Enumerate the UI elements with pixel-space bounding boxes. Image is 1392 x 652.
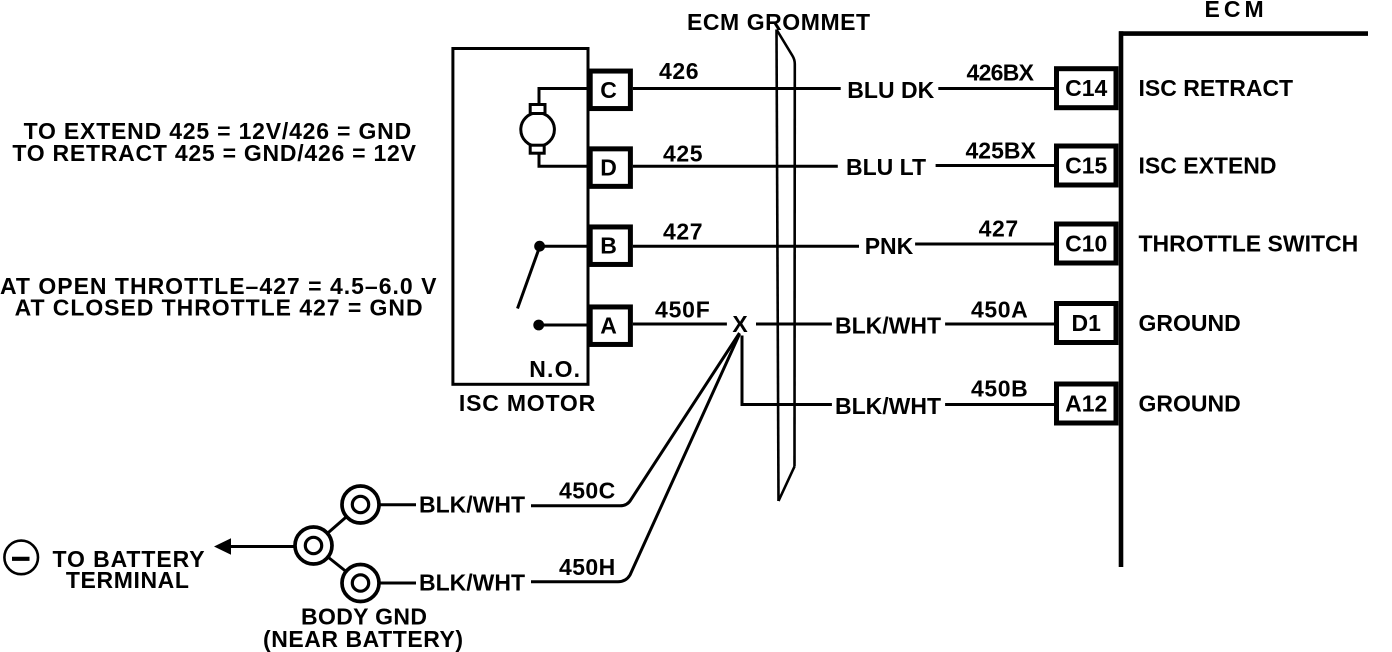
terminal A bbox=[590, 307, 630, 345]
wire top splice to BLK/WHT 450C bbox=[378, 503, 416, 506]
terminal C bbox=[590, 71, 630, 109]
svg-text:BLK/WHT: BLK/WHT bbox=[835, 313, 941, 339]
svg-text:GROUND: GROUND bbox=[1139, 391, 1241, 417]
svg-text:427: 427 bbox=[979, 216, 1019, 242]
body ground splice top bbox=[342, 486, 379, 523]
motor brush bottom bbox=[530, 145, 544, 153]
wire 426 (C to grommet) bbox=[633, 87, 841, 90]
svg-text:PNK: PNK bbox=[865, 233, 914, 259]
svg-text:B: B bbox=[600, 233, 617, 259]
switch contact dot at A bbox=[533, 320, 544, 331]
body ground splice bottom bbox=[342, 565, 379, 602]
ECM top line bbox=[1119, 31, 1368, 36]
svg-text:N.O.: N.O. bbox=[529, 356, 581, 382]
motor M (armature) bbox=[521, 113, 555, 147]
wire motor to terminal D bbox=[539, 154, 588, 167]
svg-text:BLK/WHT: BLK/WHT bbox=[419, 570, 525, 596]
svg-text:C15: C15 bbox=[1065, 153, 1107, 179]
ECM vertical line bbox=[1119, 31, 1124, 567]
svg-text:ISC RETRACT: ISC RETRACT bbox=[1139, 75, 1294, 101]
wire 450A (X to BLK/WHT) bbox=[756, 323, 832, 326]
switch contact dot at B bbox=[534, 241, 545, 252]
wire 425 (D to grommet) bbox=[633, 165, 838, 168]
wire motor to terminal C bbox=[539, 89, 588, 105]
wire 427 (to C10) bbox=[915, 243, 1054, 246]
wire dot to terminal A bbox=[539, 324, 588, 327]
svg-text:C: C bbox=[600, 77, 617, 103]
wire 425BX (to C15) bbox=[936, 164, 1054, 167]
svg-text:BLU LT: BLU LT bbox=[846, 154, 926, 180]
body ground splice middle bbox=[295, 527, 332, 564]
svg-text:X: X bbox=[732, 311, 748, 337]
svg-text:BLU DK: BLU DK bbox=[847, 77, 934, 103]
wire 450A (to D1) bbox=[945, 323, 1054, 326]
svg-text:ISC EXTEND: ISC EXTEND bbox=[1139, 153, 1277, 179]
terminal D bbox=[590, 149, 630, 187]
svg-text:C14: C14 bbox=[1065, 75, 1107, 101]
battery minus terminal symbol bbox=[4, 541, 38, 575]
ECM pin A12 bbox=[1057, 384, 1117, 423]
svg-text:BLK/WHT: BLK/WHT bbox=[835, 393, 941, 419]
svg-text:450H: 450H bbox=[559, 554, 616, 580]
svg-text:426: 426 bbox=[659, 58, 699, 84]
wire 427 (B to grommet) bbox=[633, 245, 859, 248]
wire bottom splice to BLK/WHT 450H bbox=[378, 582, 416, 585]
arrow to battery terminal bbox=[214, 538, 231, 555]
ECM grommet bbox=[777, 30, 795, 502]
svg-text:450C: 450C bbox=[559, 478, 616, 504]
ECM pin C15 bbox=[1057, 146, 1117, 185]
svg-text:450B: 450B bbox=[971, 376, 1028, 402]
wire X down to 450B row bbox=[742, 336, 832, 405]
svg-text:425BX: 425BX bbox=[966, 138, 1037, 164]
wire 426BX (to C14) bbox=[938, 87, 1054, 90]
switch blade (N.O.) bbox=[518, 250, 539, 309]
svg-text:C10: C10 bbox=[1065, 231, 1107, 257]
wire splice to battery arrow bbox=[228, 545, 296, 548]
ECM pin D1 bbox=[1057, 304, 1117, 343]
wire 450C diagonal from X bbox=[531, 333, 740, 506]
ECM pin C14 bbox=[1057, 69, 1117, 108]
svg-text:AT CLOSED THROTTLE 427 = GND: AT CLOSED THROTTLE 427 = GND bbox=[15, 295, 424, 321]
svg-text:GROUND: GROUND bbox=[1139, 310, 1241, 336]
terminal B bbox=[590, 227, 630, 265]
svg-text:426BX: 426BX bbox=[967, 60, 1035, 86]
svg-text:D: D bbox=[600, 155, 617, 181]
wire 450F (A to splice X) bbox=[633, 323, 727, 326]
splice cluster connector lines bbox=[314, 505, 361, 546]
svg-text:A12: A12 bbox=[1065, 391, 1107, 417]
svg-text:TERMINAL: TERMINAL bbox=[66, 567, 190, 593]
ISC motor box bbox=[453, 49, 588, 385]
svg-text:450F: 450F bbox=[655, 297, 711, 323]
svg-text:A: A bbox=[600, 313, 617, 339]
svg-text:D1: D1 bbox=[1072, 310, 1102, 336]
wire dot to terminal B bbox=[540, 245, 588, 248]
svg-text:425: 425 bbox=[663, 141, 703, 167]
svg-text:(NEAR BATTERY): (NEAR BATTERY) bbox=[263, 626, 464, 652]
motor brush top bbox=[530, 105, 545, 114]
ECM pin C10 bbox=[1057, 224, 1117, 263]
svg-text:450A: 450A bbox=[971, 297, 1028, 323]
wire 450B (to A12) bbox=[945, 403, 1054, 406]
wire 450H diagonal from X bbox=[531, 334, 740, 582]
svg-text:ISC MOTOR: ISC MOTOR bbox=[459, 390, 596, 416]
svg-text:427: 427 bbox=[663, 219, 703, 245]
svg-text:TO RETRACT 425 = GND/426 = 12V: TO RETRACT 425 = GND/426 = 12V bbox=[12, 140, 416, 166]
svg-text:THROTTLE SWITCH: THROTTLE SWITCH bbox=[1139, 231, 1359, 257]
svg-text:BLK/WHT: BLK/WHT bbox=[419, 491, 525, 517]
svg-text:ECM: ECM bbox=[1205, 0, 1268, 22]
